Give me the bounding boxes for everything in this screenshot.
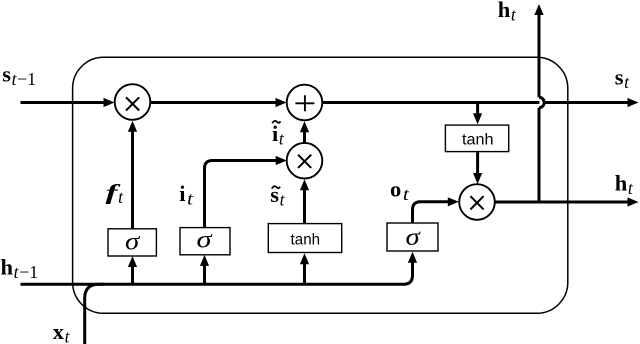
svg-text:tanh: tanh [462,131,494,148]
svg-text:σ: σ [125,229,141,256]
svg-text:tanh: tanh [291,232,321,249]
svg-text:σ: σ [197,227,214,254]
svg-text:ht: ht [498,0,517,25]
svg-text:σ: σ [406,224,422,251]
